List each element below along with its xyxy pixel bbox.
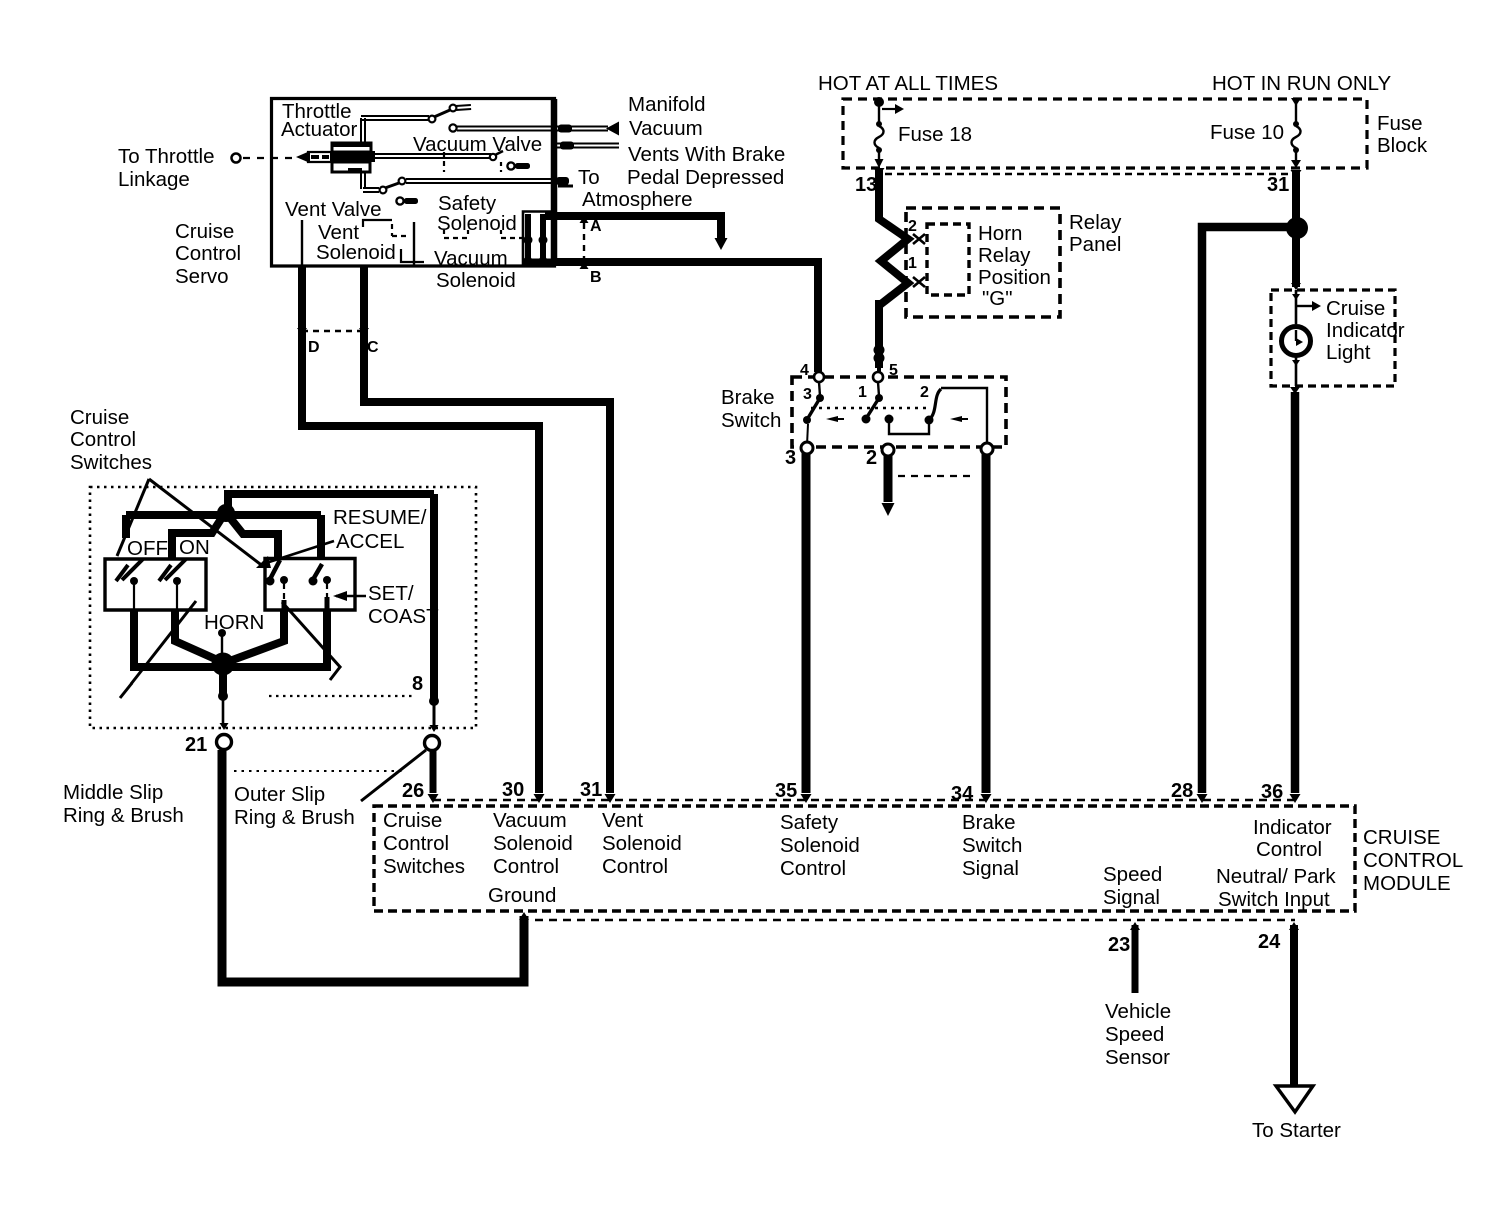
wire 21 drop inside box (218, 664, 229, 730)
node C (359, 328, 379, 356)
svg-text:Control: Control (175, 242, 241, 265)
svg-text:RESUME/: RESUME/ (333, 506, 427, 529)
label: Vent Solenoid Control (602, 809, 682, 878)
label: SET/COAST with pointer (333, 582, 439, 628)
svg-text:Control: Control (602, 855, 668, 878)
node A (580, 216, 603, 235)
svg-text:Solenoid: Solenoid (437, 212, 517, 235)
label: Safety Solenoid (437, 192, 517, 235)
wire C (vacuum solenoid control) (364, 266, 610, 793)
pin from wire B right (SET) (317, 515, 325, 558)
label: Horn Relay Position G (978, 222, 1051, 310)
wire 31 down to junction (1292, 170, 1300, 222)
label: Brake Switch (721, 386, 781, 432)
svg-text:Switches: Switches (70, 451, 152, 474)
svg-text:Block: Block (1377, 134, 1428, 157)
to starter arrowhead (1276, 1086, 1313, 1112)
brake switch pin 5 (873, 362, 898, 382)
svg-text:Vacuum Valve: Vacuum Valve (413, 133, 542, 156)
relay contact 1 (X mark) (908, 255, 925, 287)
actuator middle rod (374, 151, 503, 160)
label: To Throttle Linkage (118, 145, 214, 191)
slip ring terminal 21 (185, 734, 232, 756)
svg-text:HORN: HORN (204, 611, 264, 634)
vent valve upper linkage (361, 105, 471, 143)
svg-text:B: B (590, 269, 602, 286)
svg-text:Solenoid: Solenoid (780, 834, 860, 857)
svg-text:Fuse 10: Fuse 10 (1210, 121, 1284, 144)
node B (580, 262, 602, 286)
svg-text:Fuse: Fuse (1377, 112, 1423, 135)
svg-text:Switch: Switch (962, 834, 1022, 857)
svg-text:Middle Slip: Middle Slip (63, 781, 163, 804)
svg-text:Brake: Brake (962, 811, 1016, 834)
svg-text:Vacuum: Vacuum (434, 247, 508, 270)
svg-text:Vacuum: Vacuum (493, 809, 567, 832)
vacuum valve plunger (507, 162, 530, 169)
tick above light box (1291, 283, 1301, 290)
svg-text:30: 30 (502, 779, 524, 801)
svg-text:Signal: Signal (962, 857, 1019, 880)
terminal 36 (1261, 781, 1301, 803)
svg-text:2: 2 (920, 384, 929, 401)
svg-text:Solenoid: Solenoid (316, 241, 396, 264)
svg-text:1: 1 (858, 384, 867, 401)
terminal 28 (1171, 780, 1208, 803)
svg-text:Cruise: Cruise (70, 406, 129, 429)
svg-text:SET/: SET/ (368, 582, 414, 605)
fuse F10 (1291, 98, 1301, 168)
slip ring terminal at 8/26 (425, 736, 440, 751)
cruise control servo box (272, 99, 555, 267)
svg-text:Cruise: Cruise (383, 809, 442, 832)
bottom rail (OFF to SET outer) (134, 610, 327, 667)
junction node (1286, 217, 1308, 239)
svg-text:HOT IN RUN ONLY: HOT IN RUN ONLY (1212, 72, 1392, 95)
svg-text:Manifold: Manifold (628, 93, 706, 116)
servo output connector (523, 212, 556, 266)
label: Vent Valve (285, 198, 382, 221)
svg-text:Horn: Horn (978, 222, 1022, 245)
dotted leader above outer slip label (234, 770, 404, 772)
mechanical link lower-right (282, 602, 341, 680)
svg-text:Control: Control (383, 832, 449, 855)
svg-text:ON: ON (179, 536, 210, 559)
label: Cruise Control Servo (175, 220, 241, 288)
svg-text:Switch Input: Switch Input (1218, 888, 1330, 911)
X arm left (to ON pin) (172, 519, 221, 558)
svg-text:Indicator: Indicator (1253, 816, 1332, 839)
brake switch mech coupling dotted line (811, 407, 930, 410)
throttle actuator body (296, 143, 375, 173)
switch wire B rail (126, 511, 321, 519)
svg-text:ACCEL: ACCEL (336, 530, 404, 553)
svg-text:Relay: Relay (978, 244, 1031, 267)
indicator lower lead (1292, 356, 1300, 386)
safety solenoid plunger (396, 197, 418, 204)
svg-text:A: A (590, 218, 602, 235)
label: Cruise Control Switches (70, 406, 152, 474)
svg-text:Ring & Brush: Ring & Brush (63, 804, 184, 827)
svg-text:Vent: Vent (602, 809, 643, 832)
cruise switches dotted box (90, 487, 476, 728)
label: HOT AT ALL TIMES (818, 72, 998, 95)
wire D (vent solenoid control) (302, 266, 539, 793)
relay contact 2 (X mark) (908, 218, 925, 244)
svg-text:8: 8 (412, 673, 423, 695)
indicator bulb (1282, 327, 1311, 356)
X arm right (to RESUME pin) (231, 519, 278, 558)
svg-text:26: 26 (402, 780, 424, 802)
svg-text:24: 24 (1258, 931, 1281, 953)
label: To Starter (1252, 1119, 1341, 1142)
brake switch dashed box (792, 377, 1006, 447)
svg-text:Indicator: Indicator (1326, 319, 1405, 342)
label: Relay Panel (1069, 211, 1122, 256)
vacuum solenoid bracket (401, 249, 424, 262)
brake switch pin 4 (800, 362, 824, 382)
safety valve lower linkage (361, 172, 554, 193)
pin 13 (855, 168, 885, 196)
label: Brake Switch Signal (962, 811, 1022, 880)
label: RESUME/ACCEL with pointer (256, 506, 427, 568)
wire 13 lower stub (877, 366, 881, 372)
label pointer lines (117, 479, 264, 567)
svg-text:To Starter: To Starter (1252, 1119, 1341, 1142)
terminal 23 (1108, 922, 1140, 956)
junction top (217, 504, 235, 522)
svg-text:Pedal Depressed: Pedal Depressed (627, 166, 784, 189)
svg-text:1: 1 (908, 255, 917, 272)
brake switch pole 2 (920, 384, 987, 445)
label: Outer Slip Ring & Brush with pointer (234, 750, 426, 829)
svg-text:Control: Control (780, 857, 846, 880)
switch wire A top rail (228, 494, 434, 512)
right switch rectangle (265, 559, 355, 611)
svg-text:Relay: Relay (1069, 211, 1122, 234)
wire: brake sw 3 to module 35 (802, 453, 811, 793)
wire: dash-dot link to actuator rod (243, 157, 296, 159)
svg-text:Panel: Panel (1069, 233, 1121, 256)
manifold vacuum port line (554, 122, 619, 136)
svg-text:Safety: Safety (780, 811, 839, 834)
label: Fuse Block (1377, 112, 1428, 157)
svg-text:Sensor: Sensor (1105, 1046, 1170, 1069)
svg-text:C: C (367, 339, 379, 356)
label: Middle Slip Ring & Brush (63, 781, 184, 827)
fuse block dashed box (843, 99, 1367, 174)
to atmosphere port line (556, 177, 573, 186)
svg-text:Outer Slip: Outer Slip (234, 783, 325, 806)
svg-text:36: 36 (1261, 781, 1283, 803)
svg-text:Speed: Speed (1105, 1023, 1164, 1046)
vacuum valve rod to manifold port (449, 124, 554, 131)
wire 13 with horn relay coil (874, 170, 909, 368)
svg-text:Ring & Brush: Ring & Brush (234, 806, 355, 829)
SET/COAST switch contact (309, 564, 332, 610)
relay panel dashed box (906, 208, 1060, 317)
wire: vehicle speed sensor to 23 (1132, 925, 1139, 993)
svg-text:31: 31 (1267, 174, 1289, 196)
terminal 35 (775, 780, 812, 803)
svg-text:Brake: Brake (721, 386, 775, 409)
wire 8 (switch assembly to slip ring) (430, 494, 438, 700)
bottom junction (212, 653, 235, 676)
node: throttle linkage terminal circle (232, 154, 241, 163)
label: Speed Signal (1103, 863, 1162, 909)
svg-text:4: 4 (800, 362, 809, 379)
label: OFF (127, 537, 168, 560)
terminal 26 (402, 780, 439, 803)
node D (297, 328, 320, 356)
dotted leader to 8 wire (269, 695, 416, 697)
brake switch terminal (right, to 34) (981, 443, 993, 455)
RESUME pin down to bottom junction (227, 610, 284, 662)
label: Cruise Indicator Light (1326, 297, 1405, 364)
pin 8 (412, 673, 423, 695)
wire: light to module 36 (1290, 387, 1300, 793)
svg-text:5: 5 (889, 362, 898, 379)
svg-text:Neutral/ Park: Neutral/ Park (1216, 865, 1336, 888)
svg-text:HOT AT ALL TIMES: HOT AT ALL TIMES (818, 72, 998, 95)
svg-text:34: 34 (951, 783, 974, 805)
svg-text:MODULE: MODULE (1363, 872, 1451, 895)
cruise indicator light dashed box (1271, 290, 1395, 386)
svg-text:Solenoid: Solenoid (602, 832, 682, 855)
svg-text:OFF: OFF (127, 537, 168, 560)
label: Indicator Control (1253, 816, 1332, 861)
svg-text:Solenoid: Solenoid (493, 832, 573, 855)
label: To Atmosphere (578, 166, 693, 211)
connector boundary dash A/B (583, 212, 585, 262)
terminal 34 (951, 783, 992, 805)
svg-text:CRUISE: CRUISE (1363, 826, 1440, 849)
svg-text:COAST: COAST (368, 605, 439, 628)
wire: 21 to ground loop to module ground (222, 750, 529, 982)
svg-text:Signal: Signal (1103, 886, 1160, 909)
label: Fuse 10 (1210, 121, 1284, 144)
ON pin down to bottom junction (175, 610, 222, 662)
label: HORN (204, 611, 264, 634)
svg-text:2: 2 (908, 218, 917, 235)
label: HOT IN RUN ONLY (1212, 72, 1392, 95)
svg-text:Vent Valve: Vent Valve (285, 198, 382, 221)
svg-text:35: 35 (775, 780, 797, 802)
cruise control module dashed box (374, 800, 1355, 920)
wire B (to brake switch pin 4) (556, 262, 818, 372)
label: Vent Solenoid (316, 221, 396, 264)
svg-text:CONTROL: CONTROL (1363, 849, 1463, 872)
svg-text:Vehicle: Vehicle (1105, 1000, 1171, 1023)
wire: 24 to starter (1290, 925, 1298, 1086)
label: Neutral/Park Switch Input (1216, 865, 1336, 911)
OFF switch contact (116, 559, 143, 610)
svg-text:Vents With Brake: Vents With Brake (628, 143, 785, 166)
svg-text:Fuse 18: Fuse 18 (898, 123, 972, 146)
wire A (vacuum solenoid to atmosphere vent) (545, 216, 728, 250)
svg-text:Control: Control (1256, 838, 1322, 861)
dashed leader near brake terminal 2 (898, 475, 976, 477)
svg-text:3: 3 (785, 447, 796, 469)
vent solenoid bracket (363, 220, 414, 266)
terminal 31 (module) (580, 779, 616, 803)
left switch rectangle (105, 559, 206, 610)
connector boundary dash D/C (302, 330, 364, 332)
fuse F18 (874, 97, 904, 168)
svg-text:Actuator: Actuator (281, 118, 358, 141)
label: Ground (488, 884, 556, 907)
svg-text:Vacuum: Vacuum (629, 117, 703, 140)
svg-text:To: To (578, 166, 600, 189)
svg-text:Control: Control (493, 855, 559, 878)
wire: slip ring to module 26 (430, 751, 437, 793)
brake switch terminal 2 (866, 444, 894, 469)
label: Vehicle Speed Sensor (1105, 1000, 1171, 1069)
horn tap wire (218, 629, 226, 658)
svg-text:Linkage: Linkage (118, 168, 190, 191)
svg-text:31: 31 (580, 779, 602, 801)
label: Vacuum Valve (413, 133, 542, 156)
svg-text:Solenoid: Solenoid (436, 269, 516, 292)
label: Manifold Vacuum (628, 93, 706, 140)
mechanical link lower-left (120, 601, 196, 698)
svg-text:Cruise: Cruise (1326, 297, 1385, 320)
brake switch pole 3 (803, 382, 844, 445)
svg-text:Atmosphere: Atmosphere (582, 188, 693, 211)
svg-text:To Throttle: To Throttle (118, 145, 214, 168)
svg-text:21: 21 (185, 734, 207, 756)
wire: brake sw right to module 34 (982, 454, 991, 793)
label: CRUISE CONTROL MODULE (1363, 826, 1463, 895)
svg-text:Control: Control (70, 428, 136, 451)
horn relay inner dashed box (927, 224, 969, 295)
label: ON (179, 536, 210, 559)
8 wire tick (429, 696, 439, 732)
indicator light internal lead + arrow (1292, 290, 1321, 324)
label: Safety Solenoid Control (780, 811, 860, 880)
brake switch terminal 3 (785, 442, 813, 469)
label: Vents With Brake Pedal Depressed (627, 143, 785, 189)
wire: brake sw 2 stub to horn (882, 455, 895, 516)
svg-text:Position: Position (978, 266, 1051, 289)
svg-text:Servo: Servo (175, 265, 229, 288)
pin 31 (fuse block) (1267, 170, 1302, 196)
terminal 30 (502, 779, 545, 803)
svg-text:Cruise: Cruise (175, 220, 234, 243)
svg-text:Ground: Ground (488, 884, 556, 907)
RESUME/ACCEL switch contact (266, 560, 289, 610)
svg-text:28: 28 (1171, 780, 1193, 802)
wire junction to indicator light (1292, 235, 1300, 287)
svg-text:Switch: Switch (721, 409, 781, 432)
svg-text:23: 23 (1108, 934, 1130, 956)
vent valve stem line (301, 220, 303, 266)
svg-text:Switches: Switches (383, 855, 465, 878)
label: Vacuum Solenoid Control (493, 809, 573, 878)
svg-text:13: 13 (855, 174, 877, 196)
svg-text:D: D (308, 339, 320, 356)
vents port line (554, 142, 619, 150)
svg-text:3: 3 (803, 386, 812, 403)
label: Fuse 18 (898, 123, 972, 146)
ON switch contact (159, 559, 186, 610)
label: Cruise Control Switches (module) (383, 809, 465, 878)
wire to module 28 (1202, 227, 1293, 793)
safety solenoid dashed pointers (444, 152, 522, 238)
brake switch pole 1 (858, 382, 929, 434)
svg-text:"G": "G" (982, 287, 1013, 310)
svg-text:2: 2 (866, 447, 877, 469)
terminal 24 (1258, 922, 1299, 953)
label: Throttle Actuator (281, 100, 358, 141)
svg-text:Speed: Speed (1103, 863, 1162, 886)
pin from wire B left (OFF) (122, 515, 130, 538)
svg-text:Light: Light (1326, 341, 1371, 364)
label: Vacuum Solenoid (434, 247, 516, 292)
